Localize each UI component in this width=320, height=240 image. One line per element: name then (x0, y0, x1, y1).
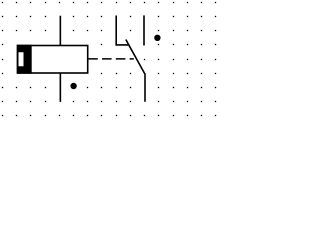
coil pin 1 wire (top) (59, 16, 61, 46)
relay coil K1 body (18, 46, 88, 74)
switch blade (movable contact) (126, 40, 145, 75)
mechanical link: dashed line coil to switch blade (88, 58, 134, 60)
coil polarity fill (black band, left end) (17, 45, 32, 74)
junction dot A (near coil bottom pin) (70, 83, 76, 89)
switch common pin wire (bottom) (144, 73, 146, 101)
coil pin 2 wire (bottom) (59, 73, 61, 102)
switch fixed contact pin wire (left, top) (116, 16, 129, 45)
switch fixed contact pin wire (right, top) (143, 15, 145, 45)
junction dot B (right contact) (154, 35, 160, 41)
